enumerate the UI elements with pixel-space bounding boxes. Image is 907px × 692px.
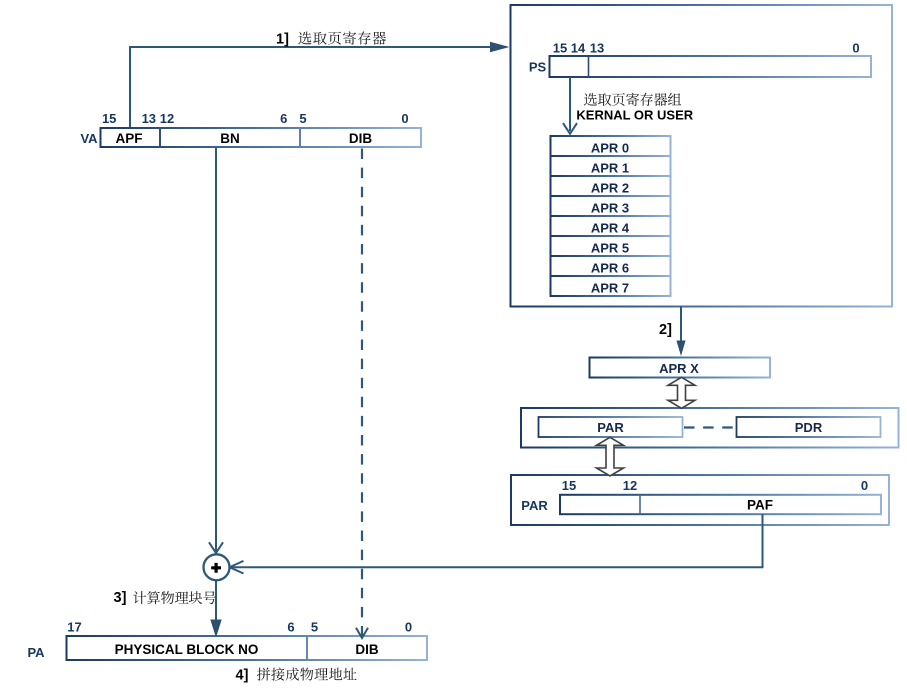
svg-text:APR 5: APR 5 — [591, 240, 629, 255]
svg-text:APR 7: APR 7 — [591, 280, 629, 295]
svg-text:VA: VA — [80, 131, 98, 146]
svg-text:PAR: PAR — [597, 420, 624, 435]
svg-text:12: 12 — [623, 478, 637, 493]
svg-text:12: 12 — [160, 111, 174, 126]
svg-text:APR X: APR X — [659, 361, 699, 376]
svg-text:3]: 3] — [114, 590, 127, 606]
svg-text:1]: 1] — [276, 32, 289, 48]
svg-text:PHYSICAL BLOCK NO: PHYSICAL BLOCK NO — [115, 642, 259, 657]
svg-text:APR 2: APR 2 — [591, 180, 629, 195]
svg-text:APF: APF — [116, 131, 143, 146]
svg-text:2]: 2] — [659, 322, 672, 338]
svg-text:0: 0 — [861, 478, 868, 493]
svg-text:BN: BN — [220, 131, 240, 146]
svg-text:0: 0 — [401, 111, 408, 126]
svg-text:APR 3: APR 3 — [591, 200, 629, 215]
svg-text:KERNAL OR USER: KERNAL OR USER — [576, 107, 693, 122]
svg-text:0: 0 — [852, 41, 859, 56]
svg-text:APR 0: APR 0 — [591, 140, 629, 155]
svg-text:0: 0 — [405, 620, 412, 635]
svg-text:APR 4: APR 4 — [591, 220, 630, 235]
svg-text:15: 15 — [102, 111, 116, 126]
svg-text:15: 15 — [553, 41, 567, 56]
svg-text:PDR: PDR — [795, 420, 823, 435]
svg-text:14: 14 — [571, 41, 586, 56]
svg-text:PS: PS — [529, 59, 547, 74]
svg-text:APR 6: APR 6 — [591, 260, 629, 275]
svg-text:6: 6 — [287, 620, 294, 635]
svg-text:17: 17 — [67, 620, 81, 635]
svg-text:13: 13 — [590, 41, 604, 56]
svg-text:DIB: DIB — [349, 131, 373, 146]
svg-text:PA: PA — [27, 645, 45, 660]
svg-text:13: 13 — [142, 111, 156, 126]
svg-text:4]: 4] — [236, 668, 249, 684]
svg-text:DIB: DIB — [355, 642, 379, 657]
svg-text:5: 5 — [311, 620, 318, 635]
svg-text:6: 6 — [280, 111, 287, 126]
svg-text:15: 15 — [562, 478, 576, 493]
svg-text:5: 5 — [299, 111, 306, 126]
svg-text:PAR: PAR — [521, 498, 548, 513]
svg-text:PAF: PAF — [747, 498, 773, 513]
svg-text:APR 1: APR 1 — [591, 160, 629, 175]
